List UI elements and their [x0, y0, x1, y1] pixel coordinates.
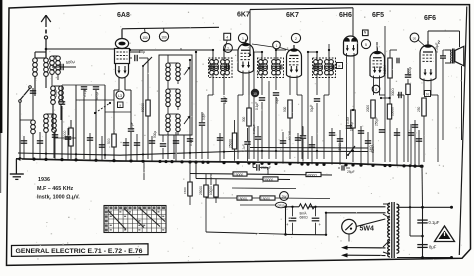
wire grid cap — [121, 29, 123, 30]
wire — [418, 130, 420, 166]
pointer line — [252, 44, 273, 47]
antenna coil primary L1 — [33, 58, 38, 76]
band switch S1 — [19, 86, 32, 103]
wire — [219, 133, 221, 163]
capacitor 250uF — [257, 164, 259, 170]
wire — [201, 126, 203, 159]
coil L5 — [44, 114, 49, 132]
capacitor electrolytic 25uF b — [312, 218, 320, 221]
resistor 10000 — [69, 128, 73, 146]
terminal square 4 — [224, 33, 231, 40]
wire — [167, 107, 169, 114]
tube 6F6 output — [420, 41, 436, 81]
svg-text:300: 300 — [242, 116, 246, 122]
oscillator coil assembly box — [159, 55, 192, 135]
wire B+ — [195, 52, 197, 159]
table grid contents — [104, 206, 166, 233]
T3 primary lower — [314, 66, 323, 75]
capacitor 8uF — [417, 245, 427, 248]
wire — [311, 136, 313, 164]
wire 6H6 out 2 — [353, 53, 355, 110]
wire — [328, 50, 330, 61]
circled test point 20 — [410, 33, 419, 42]
coil L7 — [31, 120, 36, 134]
IF transformer T3 — [313, 58, 336, 78]
junction antenna — [45, 48, 48, 51]
wire — [177, 81, 179, 84]
svg-text:50μF: 50μF — [275, 97, 279, 104]
wire — [302, 126, 304, 135]
svg-text:10μF: 10μF — [54, 89, 58, 97]
wire — [167, 55, 169, 63]
resistor bias 250 — [422, 98, 426, 116]
wire — [261, 52, 263, 61]
wire screen — [189, 60, 191, 159]
svg-text:5000Ω: 5000Ω — [288, 130, 292, 140]
wire — [168, 113, 178, 115]
wire 6F6 plate up — [427, 31, 429, 45]
T3 trimmer cap b — [332, 64, 334, 69]
speaker with output transformer — [445, 46, 464, 66]
wire — [346, 167, 350, 169]
svg-text:5000μ: 5000μ — [408, 67, 412, 76]
circled test point 5 — [361, 39, 370, 48]
hazard triangle — [435, 226, 455, 242]
wire — [338, 167, 340, 169]
resistor 50000 b — [406, 84, 410, 95]
osc coil row3 primary — [166, 114, 170, 132]
wire output rail — [422, 207, 424, 257]
svg-text:GENERAL ELECTRIC E.71 - E.7: GENERAL ELECTRIC E.71 - E.72 - E.76 — [16, 249, 144, 255]
wire screen 6K7 — [253, 52, 255, 159]
svg-text:4: 4 — [226, 36, 228, 40]
svg-text:680Ω: 680Ω — [300, 216, 309, 220]
wire — [23, 136, 25, 159]
T1 primary — [210, 60, 219, 69]
svg-text:F: F — [338, 64, 340, 68]
resistor tone — [188, 182, 192, 196]
wire — [223, 103, 225, 159]
wire — [360, 126, 362, 165]
svg-text:160: 160 — [161, 35, 167, 39]
svg-text:250μF: 250μF — [375, 117, 379, 126]
wire — [396, 128, 398, 166]
voltage chart table — [104, 206, 166, 233]
svg-text:1: 1 — [242, 37, 244, 41]
svg-text:6F6: 6F6 — [424, 15, 436, 22]
wire — [196, 179, 290, 180]
wire — [282, 132, 284, 164]
capacitor 50pF osc grid — [135, 55, 137, 61]
wire — [302, 139, 304, 162]
capacitor 10uF — [199, 123, 205, 125]
svg-text:25000: 25000 — [229, 139, 233, 148]
wire — [54, 137, 76, 139]
wire — [175, 132, 177, 162]
wire — [167, 81, 169, 89]
svg-text:10: 10 — [253, 92, 257, 96]
svg-text:6K7: 6K7 — [286, 12, 299, 19]
svg-text:30000: 30000 — [264, 178, 273, 182]
wire — [410, 124, 412, 166]
wire stem b — [163, 28, 165, 32]
wire — [89, 133, 91, 160]
wire down to speaker — [459, 31, 461, 47]
svg-text:GR15: GR15 — [278, 204, 285, 208]
terminal square — [118, 102, 124, 108]
antenna — [41, 15, 51, 58]
wire — [201, 112, 203, 122]
wire — [142, 66, 144, 159]
wire — [289, 76, 291, 96]
svg-text:500: 500 — [107, 138, 111, 144]
svg-text:4000Ω: 4000Ω — [307, 174, 317, 178]
terminal square F — [337, 63, 343, 69]
svg-text:1936: 1936 — [38, 177, 50, 183]
resistor 10000 — [233, 172, 247, 176]
transformer secondary winding — [397, 204, 399, 253]
svg-text:0.1μF: 0.1μF — [83, 88, 87, 97]
wire coil secondary to 6A8 grid area — [46, 48, 114, 50]
wire — [105, 111, 131, 113]
wire — [52, 66, 76, 68]
wire bus left end down — [15, 159, 17, 174]
wire — [383, 214, 390, 218]
wire — [315, 223, 317, 235]
resistor 25000 — [204, 185, 208, 197]
switch osc — [143, 57, 152, 66]
circled 160 test point — [159, 32, 168, 41]
transformer core — [391, 202, 393, 258]
wire — [292, 223, 294, 235]
wire lower return — [206, 232, 286, 234]
resistor 10000 bleeder — [214, 185, 218, 197]
svg-text:10000: 10000 — [391, 107, 395, 116]
capacitor 250pF — [379, 130, 385, 132]
resistor 4000 — [306, 172, 321, 176]
ground chassis — [10, 174, 24, 179]
tube 6H6 detector — [344, 36, 358, 56]
wire — [51, 74, 53, 86]
svg-text:6F5: 6F5 — [372, 12, 384, 19]
wire — [234, 120, 236, 133]
T1 trimmer cap b — [227, 64, 229, 69]
wire — [257, 126, 259, 136]
wire — [124, 77, 126, 90]
svg-text:250μF: 250μF — [261, 166, 271, 170]
wire — [167, 135, 169, 159]
resistor 15000 b — [260, 196, 275, 200]
wire — [367, 132, 369, 165]
pointer line 20 — [418, 40, 426, 47]
wire — [125, 138, 127, 161]
wire — [104, 85, 106, 159]
switch on-off — [348, 146, 355, 155]
wire — [177, 132, 179, 135]
wire — [248, 71, 250, 96]
svg-text:10μF: 10μF — [202, 113, 206, 120]
wire plate load riser — [384, 26, 386, 162]
wire down to T2 — [249, 10, 251, 56]
svg-text:0.05μF: 0.05μF — [435, 43, 439, 53]
IF transformer T1 — [209, 58, 233, 78]
T2 secondary lower — [272, 66, 281, 75]
wire — [301, 95, 303, 159]
wire — [151, 136, 153, 161]
resistor 500Ω cathode — [112, 134, 116, 147]
wire 5W4 out — [348, 234, 350, 242]
capacitor 500pF series — [61, 64, 63, 70]
capacitor 0.1uF c — [244, 142, 250, 144]
svg-text:50000: 50000 — [141, 103, 145, 112]
resistor plate 0.25M — [388, 58, 392, 78]
tube 6K7 first IF — [238, 40, 254, 74]
wire — [70, 120, 72, 128]
wire — [76, 99, 114, 101]
T1 trimmer cap — [210, 64, 212, 69]
wire grid top run — [122, 27, 219, 29]
wire filament with arrow — [341, 246, 386, 250]
wire filament 2 with arrow — [341, 253, 386, 257]
capacitor 0.1uF d — [300, 136, 306, 138]
wire — [20, 119, 33, 121]
wire — [285, 207, 287, 235]
capacitor 1000pF — [346, 126, 352, 128]
svg-text:3: 3 — [375, 88, 377, 92]
wire — [316, 73, 318, 95]
wire AVC branch — [250, 147, 368, 150]
field coil choke 680ohm — [299, 204, 315, 209]
capacitor 5000pF — [405, 75, 411, 77]
svg-text:0.1μF: 0.1μF — [189, 138, 193, 146]
wire — [210, 174, 212, 185]
wire — [316, 52, 318, 61]
wire stem — [144, 29, 146, 33]
wire — [212, 50, 214, 61]
wire — [397, 94, 404, 96]
svg-text:300μ: 300μ — [95, 92, 99, 100]
capacitor 50uF — [128, 129, 134, 131]
svg-text:0.1μF: 0.1μF — [223, 96, 227, 104]
5W4 filament slash — [345, 223, 352, 230]
wire — [75, 85, 77, 159]
circled test point 7 — [224, 44, 233, 53]
coil L6 — [52, 114, 57, 132]
title box — [12, 244, 149, 257]
svg-text:a: a — [119, 103, 121, 107]
wire — [223, 50, 225, 61]
T3 secondary lower — [325, 66, 334, 75]
wire — [240, 204, 276, 206]
wire dropper left — [189, 162, 191, 182]
wire — [237, 95, 239, 159]
circled L3 terminal — [116, 91, 124, 99]
svg-text:500μ: 500μ — [153, 131, 157, 138]
wire screen 2 — [307, 52, 309, 159]
wire — [296, 76, 298, 96]
svg-text:2W: 2W — [282, 195, 287, 199]
wire — [39, 132, 41, 159]
tube 5W4 rectifier — [342, 219, 357, 234]
svg-text:L3: L3 — [118, 94, 122, 98]
capacitor 0.1uF — [417, 220, 427, 223]
svg-text:6H6: 6H6 — [339, 12, 352, 19]
svg-text:25000: 25000 — [199, 186, 203, 195]
resistor 10000 decoupling — [387, 104, 391, 119]
T3 trimmer cap — [314, 64, 316, 69]
RF coil L2b — [50, 56, 55, 74]
RF coil L2c — [56, 56, 61, 74]
wire — [339, 130, 341, 165]
wire speaker return — [461, 66, 463, 140]
svg-text:M.F – 465 KHz: M.F – 465 KHz — [37, 186, 74, 192]
gang switch link — [95, 103, 110, 113]
circled test point 1b — [273, 41, 281, 49]
main chassis bus — [16, 159, 421, 166]
trimmer capacitor 2 — [184, 116, 190, 125]
border inner right — [459, 7, 467, 256]
capacitor 300pF — [93, 87, 99, 89]
wire — [162, 148, 164, 159]
svg-text:50μF: 50μF — [130, 122, 134, 130]
wire choke to transformer — [309, 206, 386, 208]
resistor 25000 — [232, 133, 236, 149]
wire — [423, 79, 425, 96]
wire — [232, 187, 296, 190]
wire — [268, 81, 270, 159]
svg-text:10000: 10000 — [234, 173, 243, 177]
resistor 15000 — [237, 196, 252, 200]
wave-band coil L3 — [51, 86, 56, 104]
wire mains drop 1 — [409, 166, 411, 236]
svg-text:0.1μF: 0.1μF — [429, 220, 440, 225]
wire — [62, 84, 105, 86]
T2 secondary — [272, 60, 281, 69]
wire screen feed — [190, 174, 332, 176]
tube 6F5 AF amp — [370, 48, 385, 78]
svg-text:1000μ: 1000μ — [350, 122, 354, 131]
wire mains drop 2 — [421, 166, 424, 207]
transformer primary windings — [388, 203, 390, 257]
wire grid leak — [403, 95, 405, 162]
svg-text:2: 2 — [295, 37, 297, 41]
wire — [234, 149, 236, 161]
circled 150 test point — [140, 32, 149, 41]
wire square to T1 — [225, 40, 228, 50]
wire dropper — [195, 162, 197, 178]
resistor 500 — [288, 100, 292, 118]
T2 primary lower — [259, 66, 268, 75]
wire — [207, 95, 209, 159]
osc coil row1 primary — [166, 63, 170, 81]
resistor cathode 300 — [247, 108, 251, 126]
svg-text:500: 500 — [283, 106, 287, 112]
svg-text:1: 1 — [276, 44, 278, 48]
T2 trimmer cap b — [280, 64, 282, 69]
osc coil row2 primary — [166, 89, 170, 107]
wire — [247, 128, 249, 141]
GR15 lamp — [276, 202, 287, 208]
svg-text:6K7: 6K7 — [237, 12, 250, 19]
wire — [292, 207, 294, 216]
wire — [147, 58, 149, 100]
T2 primary — [259, 60, 268, 69]
wire down to 6H6 — [352, 8, 354, 36]
circled test point 1 — [238, 33, 247, 42]
wire — [297, 133, 299, 164]
5W4 cathode dot — [350, 228, 352, 230]
wire — [414, 120, 416, 166]
capacitor tone 0.05 — [440, 56, 446, 58]
T2 trimmer cap — [259, 64, 261, 69]
capacitor 25uF cathode — [342, 165, 344, 170]
T1 secondary lower — [221, 66, 230, 75]
T1 secondary — [221, 60, 230, 69]
svg-text:50μ: 50μ — [139, 50, 145, 54]
osc coil row3 secondary — [176, 114, 180, 132]
wire — [46, 113, 54, 115]
pointer line b — [280, 48, 290, 51]
wire loop left — [325, 213, 327, 235]
T1 primary lower — [210, 66, 219, 75]
wire bottom return — [286, 233, 327, 235]
wave-band coil L4 — [59, 86, 64, 104]
wire — [242, 71, 244, 96]
wire — [275, 73, 277, 90]
wire — [168, 62, 178, 64]
svg-text:15000: 15000 — [238, 197, 247, 201]
circled 2W — [280, 192, 289, 201]
wire — [331, 128, 333, 165]
wire — [52, 55, 58, 57]
wire — [437, 95, 439, 162]
wire — [275, 50, 277, 61]
svg-text:25μF: 25μF — [347, 170, 355, 174]
junction — [195, 51, 197, 53]
osc coil row1 secondary — [176, 63, 180, 81]
wire — [373, 76, 375, 96]
wire 6F5 top cap — [376, 42, 378, 48]
wire HV winding to 5W4 plate — [356, 219, 385, 227]
wire — [212, 73, 214, 95]
capacitor coupling 0.01 — [399, 92, 401, 98]
wire — [183, 135, 185, 159]
svg-text:0.1μF: 0.1μF — [255, 102, 259, 110]
wire — [379, 76, 381, 96]
wire 6H6 out 1 — [346, 53, 348, 159]
wire plate 6A8 — [130, 51, 140, 53]
wire — [276, 49, 286, 51]
wire — [177, 107, 179, 110]
resistor osc 50000 — [146, 100, 150, 116]
wire secondary bottom — [397, 257, 452, 259]
svg-text:250: 250 — [417, 106, 421, 112]
wire — [383, 203, 390, 205]
capacitor 30pF — [397, 58, 399, 64]
T3 secondary — [325, 60, 334, 69]
terminal square N1 — [363, 30, 369, 36]
wire link — [410, 235, 423, 237]
wire — [54, 130, 56, 160]
wire B+ top run — [250, 8, 353, 10]
wire stub below bus — [143, 162, 145, 180]
resistor diode load 0.5M — [351, 110, 355, 128]
svg-text:60mA: 60mA — [371, 144, 375, 153]
capacitor padding — [30, 91, 36, 93]
capacitor 0.05uF — [255, 137, 261, 139]
circled test point 10 dark — [251, 89, 259, 97]
wire — [167, 132, 169, 135]
